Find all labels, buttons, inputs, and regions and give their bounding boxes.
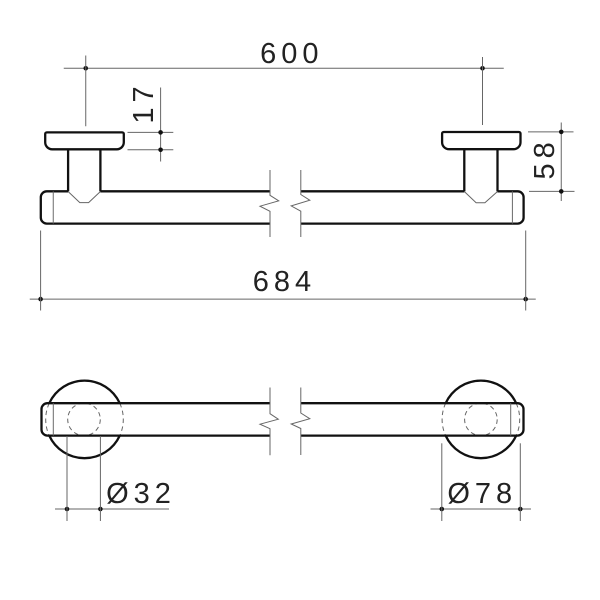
- rail front view right part: [301, 191, 524, 223]
- plan rail left end cap line: [52, 403, 54, 435]
- svg-text:17: 17: [128, 81, 160, 123]
- extension line 78 left: [441, 443, 443, 521]
- left wall flange (front view): [45, 132, 124, 149]
- extension line 58 bottom: [529, 190, 575, 192]
- dimension 684 left dot: [38, 297, 43, 302]
- svg-text:Ø78: Ø78: [447, 478, 517, 510]
- dimension line diameter 78: [431, 508, 532, 510]
- plan view right flange circle hidden right arc: [516, 403, 520, 435]
- right stem left edge: [463, 149, 465, 191]
- left stem left edge: [67, 149, 69, 191]
- plan view left flange circle hidden right arc: [120, 403, 124, 435]
- dimension 600 right dot: [480, 66, 485, 71]
- dimension 17 bottom dot: [158, 148, 163, 153]
- right stem right edge: [496, 149, 498, 191]
- extension line 32 right: [99, 436, 101, 521]
- dimension 32 right dot: [98, 507, 103, 512]
- right stem chamfer: [464, 192, 497, 203]
- plan view right hidden stem circle: [465, 403, 498, 436]
- dimension 58 top dot: [559, 130, 564, 135]
- dimension 32 left dot: [65, 507, 70, 512]
- svg-text:Ø32: Ø32: [106, 478, 176, 510]
- plan break line right: [291, 388, 310, 456]
- rail front view left part: [41, 191, 270, 223]
- dimension 17 top dot: [158, 130, 163, 135]
- dimension line 58: [560, 123, 562, 202]
- dimension 78 left dot: [440, 507, 445, 512]
- dimension line 600: [64, 67, 504, 69]
- dimension 78 right dot: [518, 507, 523, 512]
- rail plan view left part: [42, 403, 271, 435]
- svg-text:58: 58: [529, 137, 561, 179]
- front break line right: [291, 170, 310, 237]
- svg-text:684: 684: [253, 266, 316, 298]
- plan view right flange circle solid top arc: [446, 381, 517, 404]
- extension line 600 right: [482, 57, 484, 125]
- dimension line 684: [30, 298, 536, 300]
- front break line left: [260, 170, 279, 237]
- svg-text:600: 600: [260, 38, 323, 70]
- plan view right flange circle hidden left arc: [442, 403, 446, 435]
- extension line 684 right: [525, 231, 527, 311]
- extension line 17 bottom: [128, 149, 174, 151]
- dimension line diameter 32: [55, 508, 169, 510]
- rail plan view right part: [301, 403, 524, 435]
- plan view left flange circle hidden left arc: [46, 403, 50, 435]
- plan view left hidden stem circle: [68, 403, 101, 436]
- plan break line left: [260, 388, 278, 456]
- extension line 684 left: [40, 231, 42, 311]
- left stem right edge: [99, 149, 101, 191]
- extension line 58 top: [528, 131, 574, 133]
- extension line 17 top: [128, 131, 174, 133]
- plan view left flange circle solid bottom arc: [49, 436, 120, 459]
- extension line 78 right: [519, 443, 521, 521]
- dimension 600 left dot: [83, 66, 88, 71]
- extension line 32 left: [66, 436, 68, 521]
- dimension 684 right dot: [523, 297, 528, 302]
- dimension line 17: [160, 88, 162, 162]
- right wall flange (front view): [442, 132, 520, 149]
- plan view right flange circle solid bottom arc: [446, 436, 517, 459]
- plan view left flange circle solid top arc: [49, 381, 120, 404]
- extension line 600 left: [85, 56, 87, 127]
- plan rail right end cap line: [510, 403, 512, 435]
- left stem chamfer: [68, 192, 100, 203]
- rail right end cap line: [511, 191, 513, 223]
- dimension 58 bottom dot: [559, 189, 564, 194]
- rail left end cap line: [52, 191, 54, 223]
